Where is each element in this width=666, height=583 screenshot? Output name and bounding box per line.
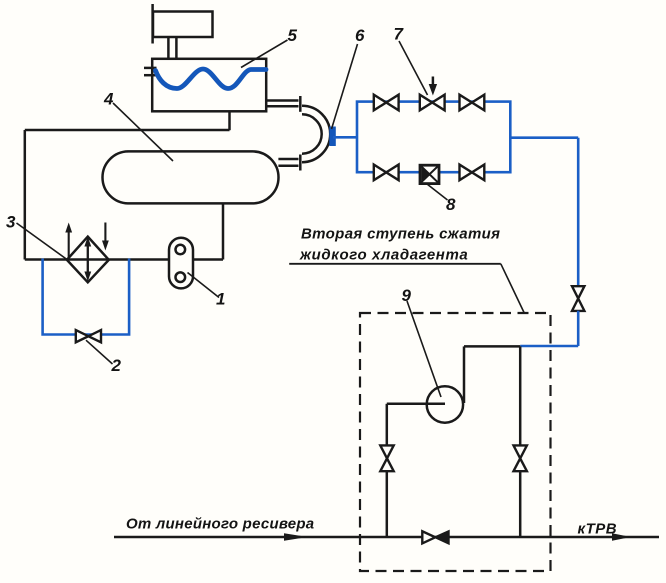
svg-text:6: 6 bbox=[355, 26, 365, 45]
svg-text:5: 5 bbox=[288, 26, 298, 45]
svg-text:3: 3 bbox=[6, 213, 16, 232]
svg-text:8: 8 bbox=[446, 195, 456, 214]
svg-text:2: 2 bbox=[111, 356, 122, 375]
svg-text:От линейного ресивера: От линейного ресивера bbox=[126, 516, 314, 533]
svg-text:1: 1 bbox=[216, 290, 225, 309]
svg-text:кТРВ: кТРВ bbox=[578, 521, 618, 538]
svg-text:Вторая ступень сжатия: Вторая ступень сжатия bbox=[301, 226, 500, 243]
svg-text:7: 7 bbox=[394, 25, 405, 44]
svg-text:9: 9 bbox=[402, 286, 412, 305]
svg-text:жидкого хладагента: жидкого хладагента bbox=[299, 247, 468, 264]
svg-text:4: 4 bbox=[103, 90, 114, 109]
